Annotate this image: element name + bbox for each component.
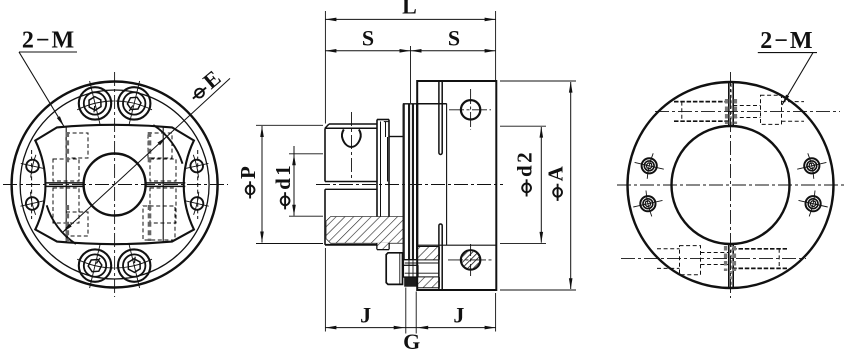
svg-text:S: S xyxy=(448,26,460,51)
svg-text:d2: d2 xyxy=(513,150,537,177)
svg-text:2−M: 2−M xyxy=(22,28,76,54)
svg-text:J: J xyxy=(453,303,464,328)
svg-text:P: P xyxy=(236,164,260,179)
svg-text:G: G xyxy=(403,329,420,351)
svg-text:d1: d1 xyxy=(271,163,295,190)
svg-text:J: J xyxy=(360,303,371,328)
svg-text:L: L xyxy=(402,0,417,19)
svg-text:2−M: 2−M xyxy=(760,28,814,54)
svg-text:A: A xyxy=(544,164,568,182)
svg-text:S: S xyxy=(362,26,374,51)
